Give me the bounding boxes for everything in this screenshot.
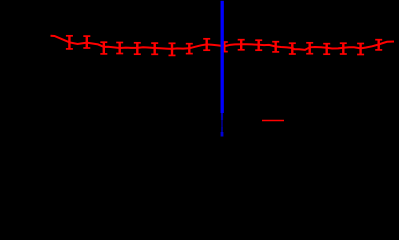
error bar 10 (221, 42, 228, 52)
error bar 6 (151, 43, 158, 54)
legend sample line (262, 120, 284, 122)
error bar 2 (83, 36, 90, 48)
red data curve with error bars (51, 36, 395, 56)
error bar 11 (238, 40, 245, 50)
blue vertical marker line (220, 1, 223, 137)
error bar 19 (375, 40, 382, 50)
error bar 13 (272, 42, 279, 52)
error bar 4 (116, 43, 123, 54)
error bar 3 (100, 42, 107, 54)
error bar 9 (203, 39, 210, 50)
error bar 18 (357, 44, 364, 55)
error bar 5 (134, 43, 141, 54)
error bar 15 (306, 43, 313, 54)
error bar 1 (66, 36, 73, 49)
wire: data polyline (51, 36, 395, 50)
error bar 12 (255, 40, 262, 50)
error bar 17 (340, 43, 347, 54)
error bar 14 (289, 43, 296, 54)
error bar 16 (323, 44, 330, 55)
error bar 7 (169, 43, 176, 55)
error bar 8 (186, 44, 193, 54)
